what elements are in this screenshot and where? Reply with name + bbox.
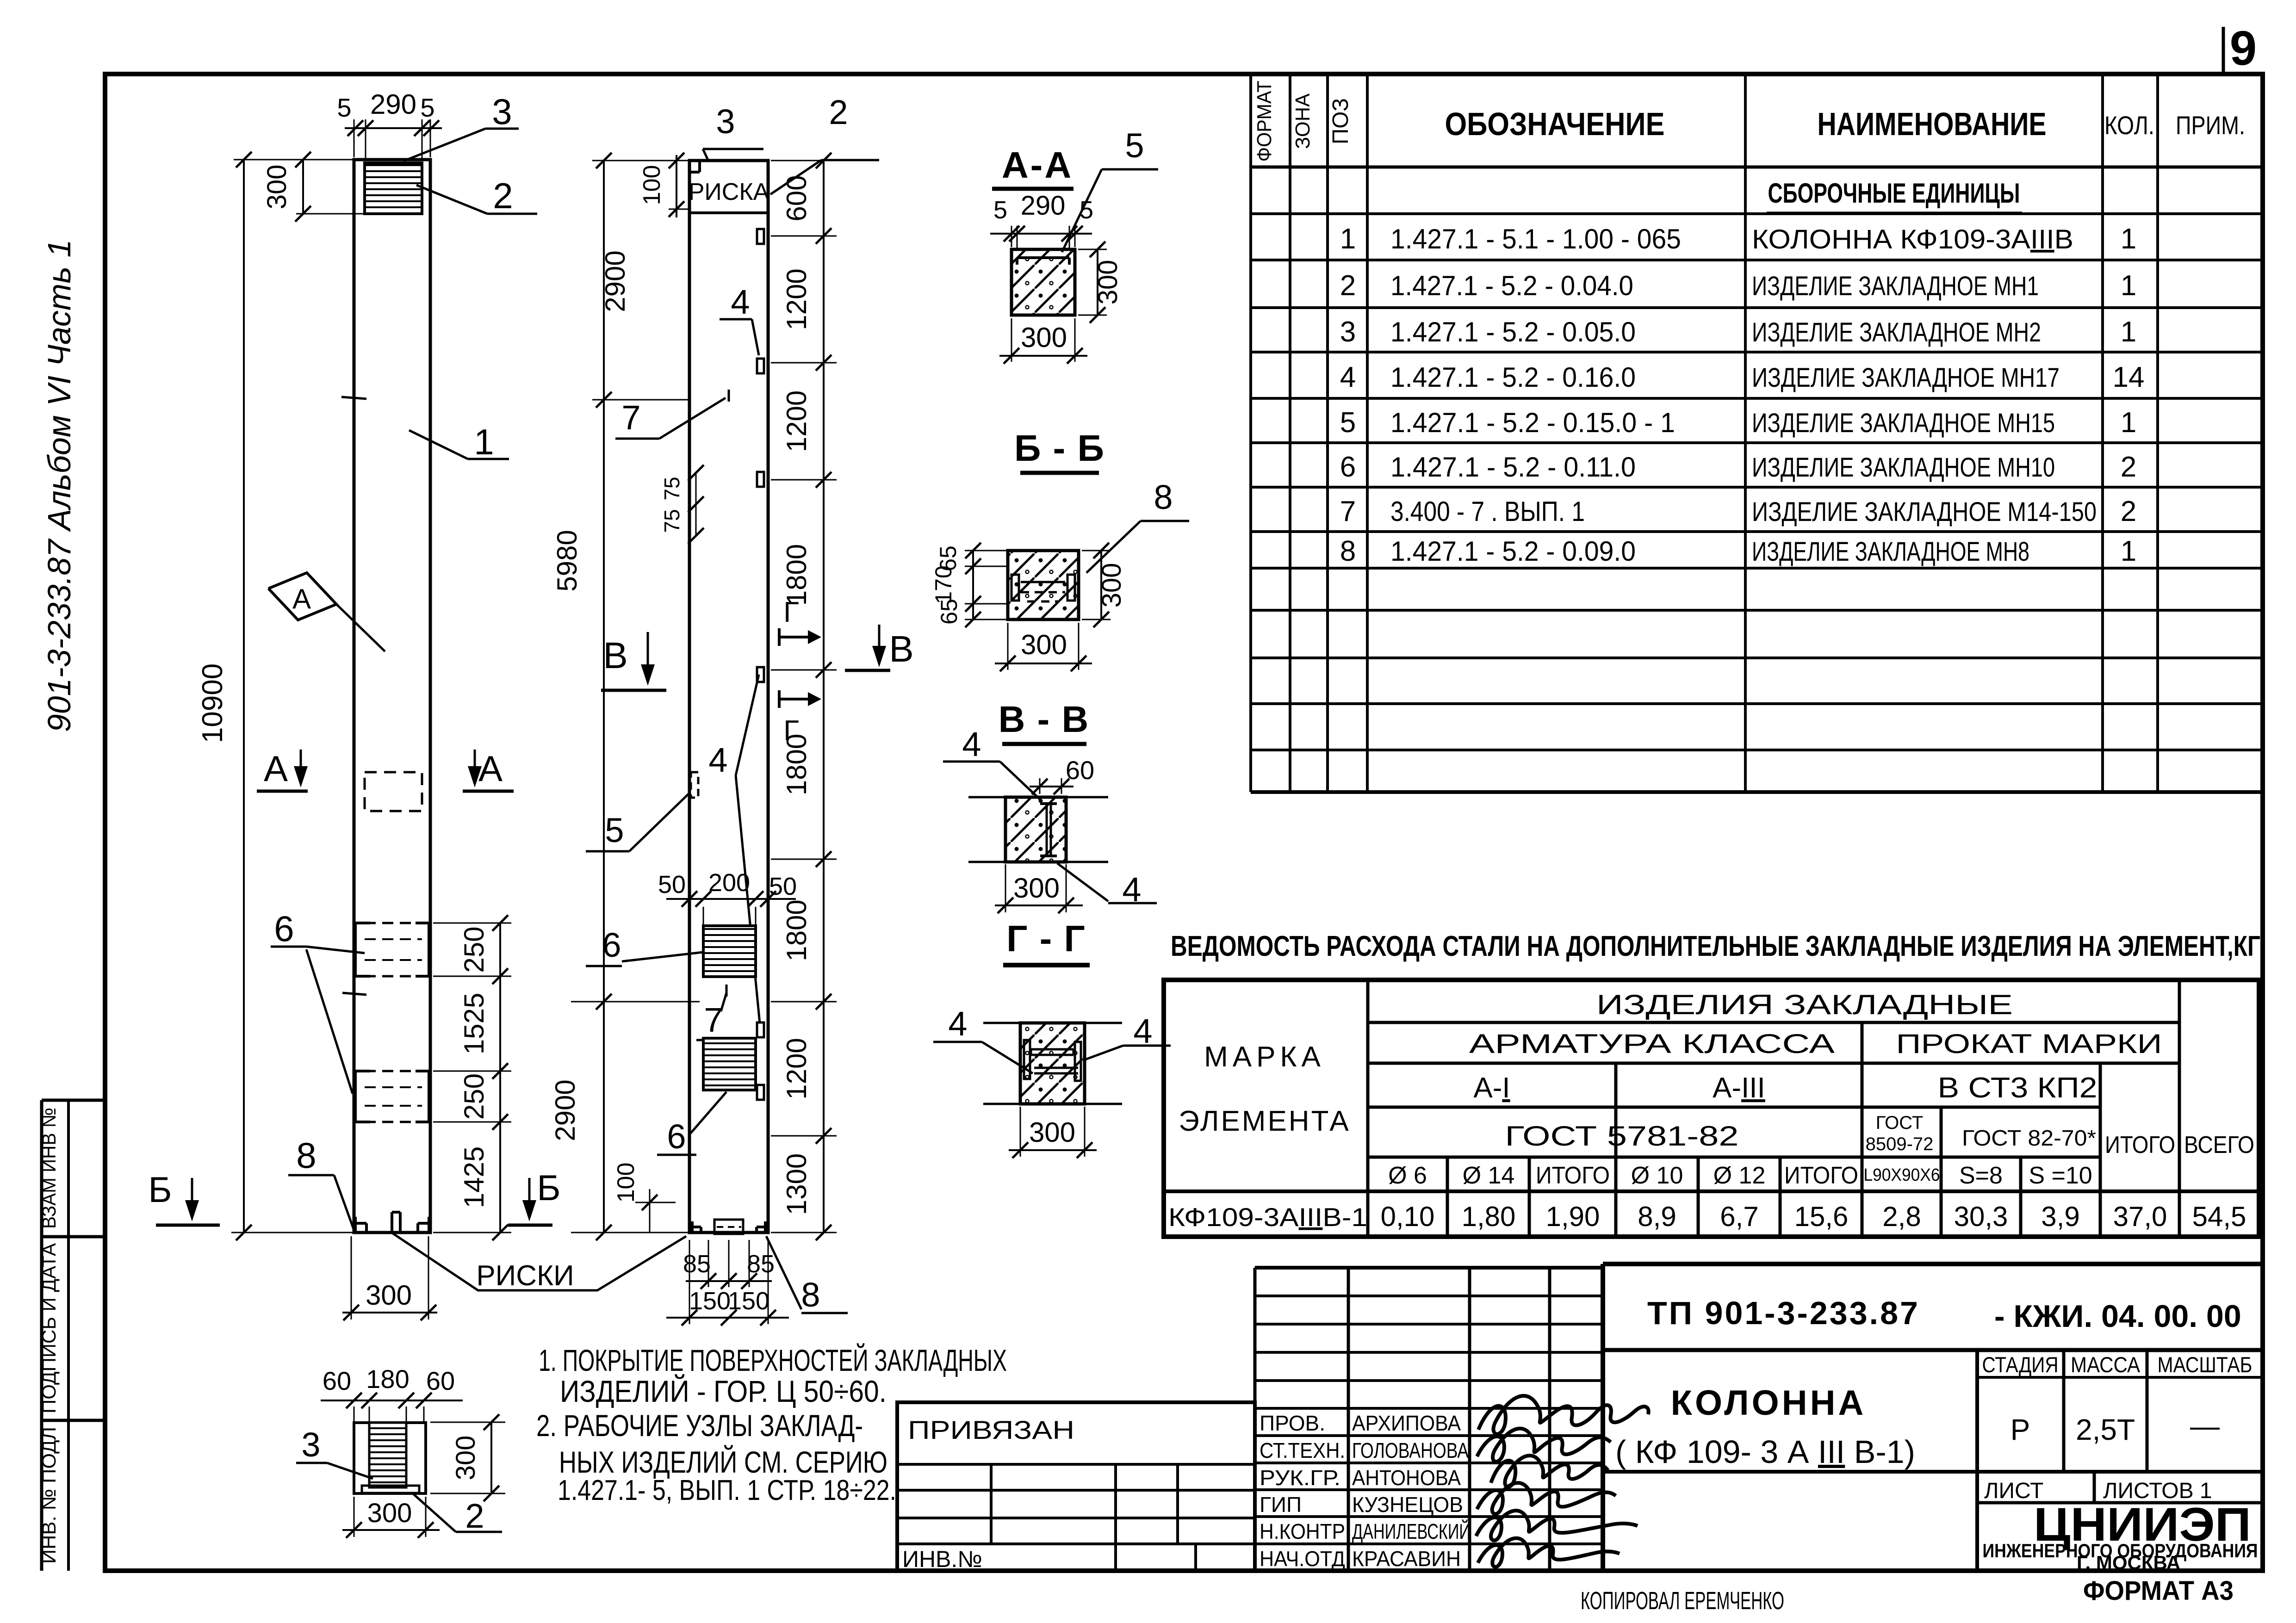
svg-text:300: 300 <box>366 1280 412 1311</box>
svg-text:В - В: В - В <box>999 699 1090 740</box>
svg-text:Изделие закладное М14-150: Изделие закладное М14-150 <box>1752 497 2097 527</box>
svg-text:В ст3 кп2: В ст3 кп2 <box>1938 1072 2097 1104</box>
svg-text:4: 4 <box>948 1004 967 1043</box>
svg-text:5: 5 <box>1340 407 1356 439</box>
svg-text:А: А <box>478 748 503 789</box>
svg-text:4: 4 <box>962 725 981 763</box>
svg-text:Красавин: Красавин <box>1352 1547 1461 1571</box>
svg-text:100: 100 <box>639 165 665 205</box>
svg-text:300: 300 <box>1097 563 1127 608</box>
svg-text:S =10: S =10 <box>2029 1162 2092 1189</box>
svg-text:1.427.1 - 5.2 - 0.11.0: 1.427.1 - 5.2 - 0.11.0 <box>1390 452 1636 483</box>
svg-text:8: 8 <box>1154 478 1173 516</box>
svg-text:Итого: Итого <box>2105 1132 2175 1158</box>
svg-text:Инв.№: Инв.№ <box>902 1546 982 1572</box>
svg-text:Г: Г <box>783 715 799 747</box>
svg-text:Нач.отд: Нач.отд <box>1260 1547 1345 1571</box>
svg-text:5: 5 <box>337 93 351 122</box>
svg-text:Изделие закладное МН2: Изделие закладное МН2 <box>1752 317 2041 347</box>
svg-text:Б - Б: Б - Б <box>1014 427 1105 469</box>
svg-text:2,8: 2,8 <box>1882 1201 1921 1232</box>
svg-text:250: 250 <box>459 926 490 973</box>
svg-text:изделий - гор. Ц 50÷60.: изделий - гор. Ц 50÷60. <box>560 1374 887 1408</box>
svg-text:200: 200 <box>708 869 750 897</box>
svg-text:10900: 10900 <box>197 663 229 743</box>
svg-text:150: 150 <box>728 1287 769 1315</box>
svg-text:КФ109-3АIIIВ-1: КФ109-3АIIIВ-1 <box>1168 1202 1367 1232</box>
svg-text:1: 1 <box>474 421 494 462</box>
svg-text:8: 8 <box>296 1135 316 1176</box>
svg-text:600: 600 <box>781 175 812 221</box>
svg-text:6: 6 <box>274 908 294 949</box>
svg-text:Арматура класса: Арматура класса <box>1469 1029 1835 1059</box>
svg-text:Итого: Итого <box>1784 1162 1858 1189</box>
svg-text:3: 3 <box>492 91 512 132</box>
svg-text:ГОСТ 82-70*: ГОСТ 82-70* <box>1962 1126 2096 1151</box>
svg-text:75: 75 <box>660 477 684 500</box>
svg-text:60: 60 <box>323 1366 351 1395</box>
svg-text:5: 5 <box>1125 126 1144 165</box>
svg-text:ø 10: ø 10 <box>1631 1162 1683 1189</box>
svg-text:Изделие закладное МН8: Изделие закладное МН8 <box>1752 537 2029 567</box>
svg-text:Масштаб: Масштаб <box>2158 1352 2253 1377</box>
svg-text:Колонна КФ109-3АIIIВ: Колонна КФ109-3АIIIВ <box>1752 224 2073 254</box>
svg-text:Колонна: Колонна <box>1671 1383 1867 1423</box>
svg-text:А: А <box>264 748 288 789</box>
svg-text:Ведомость расхода стали на доп: Ведомость расхода стали на дополнительны… <box>1171 930 2260 962</box>
svg-text:85: 85 <box>683 1250 711 1278</box>
svg-text:170: 170 <box>931 565 956 604</box>
svg-text:А-I: А-I <box>1473 1072 1510 1104</box>
svg-text:Наименование: Наименование <box>1818 106 2047 142</box>
svg-text:9: 9 <box>2230 21 2257 75</box>
svg-text:Пров.: Пров. <box>1260 1411 1325 1435</box>
svg-text:290: 290 <box>1021 191 1066 221</box>
svg-text:8,9: 8,9 <box>1638 1201 1676 1232</box>
svg-text:Изделие закладное МН17: Изделие закладное МН17 <box>1752 363 2060 393</box>
svg-text:5: 5 <box>605 811 624 849</box>
svg-text:300: 300 <box>262 165 292 210</box>
svg-text:А-III: А-III <box>1713 1072 1765 1104</box>
svg-text:Б: Б <box>148 1169 172 1210</box>
svg-text:150: 150 <box>689 1287 731 1315</box>
svg-text:2: 2 <box>465 1497 484 1535</box>
svg-text:7: 7 <box>704 1001 723 1039</box>
svg-text:8509-72: 8509-72 <box>1866 1134 1934 1154</box>
svg-text:Архипова: Архипова <box>1352 1411 1461 1435</box>
svg-text:Ст.техн.: Ст.техн. <box>1260 1438 1345 1462</box>
svg-text:290: 290 <box>370 89 416 120</box>
svg-text:1: 1 <box>2121 407 2136 439</box>
svg-text:1: 1 <box>2121 223 2136 255</box>
svg-text:Прим.: Прим. <box>2176 111 2245 140</box>
svg-text:7: 7 <box>621 398 640 437</box>
svg-text:1.427.1 - 5.2 - 0.15.0 - 1: 1.427.1 - 5.2 - 0.15.0 - 1 <box>1390 407 1675 438</box>
svg-text:14: 14 <box>2113 361 2145 393</box>
svg-text:Марка: Марка <box>1204 1041 1325 1073</box>
svg-text:300: 300 <box>1013 873 1060 904</box>
svg-text:В: В <box>603 635 627 676</box>
svg-text:Итого: Итого <box>1536 1162 1610 1189</box>
svg-text:3,9: 3,9 <box>2041 1201 2079 1232</box>
svg-text:ГИП: ГИП <box>1260 1493 1302 1517</box>
svg-text:ГОСТ 5781-82: ГОСТ 5781-82 <box>1505 1121 1739 1152</box>
svg-text:1.427.1 - 5.1 - 1.00 - 065: 1.427.1 - 5.1 - 1.00 - 065 <box>1390 223 1681 254</box>
svg-text:ГОСТ: ГОСТ <box>1876 1113 1924 1133</box>
svg-text:2: 2 <box>1340 270 1356 302</box>
svg-text:Изделия закладные: Изделия закладные <box>1596 989 2013 1020</box>
svg-text:6: 6 <box>1340 451 1356 483</box>
svg-text:2: 2 <box>829 93 848 131</box>
svg-text:3.400 - 7 . вып. 1: 3.400 - 7 . вып. 1 <box>1390 496 1585 527</box>
svg-text:Кол.: Кол. <box>2104 111 2154 140</box>
svg-text:60: 60 <box>426 1366 455 1395</box>
svg-text:8: 8 <box>1340 535 1356 567</box>
svg-text:В: В <box>889 628 913 669</box>
svg-text:г. Москва: г. Москва <box>2077 1552 2180 1573</box>
svg-text:Н.контр: Н.контр <box>1260 1519 1345 1543</box>
svg-text:1300: 1300 <box>781 1153 812 1215</box>
svg-text:S=8: S=8 <box>1959 1162 2003 1189</box>
svg-text:А: А <box>292 583 311 614</box>
svg-text:элемента: элемента <box>1179 1105 1351 1137</box>
svg-text:5980: 5980 <box>552 530 583 591</box>
svg-text:Риски: Риски <box>476 1260 574 1292</box>
svg-text:Р: Р <box>2011 1413 2030 1446</box>
svg-text:1.427.1 - 5.2 - 0.16.0: 1.427.1 - 5.2 - 0.16.0 <box>1390 362 1636 393</box>
svg-text:2. Рабочие узлы заклад-: 2. Рабочие узлы заклад- <box>536 1408 863 1443</box>
svg-text:7: 7 <box>1340 496 1356 527</box>
svg-text:4: 4 <box>708 741 727 779</box>
svg-text:50: 50 <box>769 873 797 900</box>
svg-text:6: 6 <box>602 926 621 964</box>
svg-text:Стадия: Стадия <box>1982 1352 2059 1377</box>
svg-text:1200: 1200 <box>781 1038 812 1099</box>
svg-text:Г: Г <box>783 596 799 628</box>
svg-text:4: 4 <box>731 283 750 321</box>
svg-text:2: 2 <box>493 175 513 216</box>
svg-text:Зона: Зона <box>1291 93 1314 149</box>
svg-text:Прокат марки: Прокат марки <box>1896 1029 2162 1059</box>
svg-text:3: 3 <box>301 1425 320 1464</box>
svg-text:ø 14: ø 14 <box>1463 1162 1515 1189</box>
svg-text:Формат: Формат <box>1253 81 1276 162</box>
svg-text:1800: 1800 <box>781 899 812 961</box>
svg-text:Б: Б <box>537 1167 560 1208</box>
svg-text:- кжи. 04. 00. 00: - кжи. 04. 00. 00 <box>1994 1299 2241 1334</box>
svg-text:6,7: 6,7 <box>1720 1201 1758 1232</box>
svg-text:901-3-233.87 Альбом VI Част: 901-3-233.87 Альбом VI Часть 1 <box>41 240 77 732</box>
svg-text:3: 3 <box>1340 316 1356 348</box>
svg-text:1.427.1 - 5.2 - 0.09.0: 1.427.1 - 5.2 - 0.09.0 <box>1390 536 1636 567</box>
svg-text:Копировал Еремченко: Копировал Еремченко <box>1581 1587 1784 1615</box>
svg-text:0,10: 0,10 <box>1381 1201 1435 1232</box>
svg-text:Изделие закладное МН15: Изделие закладное МН15 <box>1752 408 2055 438</box>
svg-text:Данилевский: Данилевский <box>1352 1519 1471 1543</box>
svg-text:Привязан: Привязан <box>908 1415 1074 1444</box>
svg-text:Изделие закладное МН10: Изделие закладное МН10 <box>1752 452 2055 483</box>
svg-text:2,5т: 2,5т <box>2076 1413 2135 1446</box>
svg-text:1.427.1 - 5.2 - 0.04.0: 1.427.1 - 5.2 - 0.04.0 <box>1390 270 1633 301</box>
svg-text:ø 6: ø 6 <box>1388 1162 1427 1189</box>
svg-text:1200: 1200 <box>781 390 812 452</box>
svg-text:60: 60 <box>1066 756 1094 785</box>
svg-text:100: 100 <box>613 1163 639 1203</box>
svg-text:3: 3 <box>716 102 735 141</box>
svg-text:Кузнецов: Кузнецов <box>1352 1493 1463 1517</box>
svg-text:75: 75 <box>660 509 684 533</box>
svg-text:250: 250 <box>459 1073 490 1120</box>
svg-text:1.427.1 - 5.2 - 0.05.0: 1.427.1 - 5.2 - 0.05.0 <box>1390 316 1636 347</box>
svg-text:6: 6 <box>667 1117 686 1156</box>
svg-text:50: 50 <box>658 871 686 898</box>
svg-text:8: 8 <box>801 1276 820 1314</box>
svg-text:65: 65 <box>936 599 962 625</box>
svg-text:30,3: 30,3 <box>1954 1201 2008 1232</box>
svg-text:Г - Г: Г - Г <box>1006 918 1086 959</box>
svg-text:тп 901-3-233.87: тп 901-3-233.87 <box>1647 1295 1920 1331</box>
svg-text:1: 1 <box>2121 316 2136 348</box>
svg-text:300: 300 <box>1021 322 1067 353</box>
svg-text:2900: 2900 <box>600 250 631 312</box>
svg-text:4: 4 <box>1340 361 1356 393</box>
svg-text:1. Покрытие поверхностей зак: 1. Покрытие поверхностей закладных <box>539 1343 1007 1377</box>
svg-text:54,5: 54,5 <box>2192 1201 2246 1232</box>
svg-text:Формат А3: Формат А3 <box>2083 1576 2234 1606</box>
svg-text:( Кф 109- 3 А III В-1): ( Кф 109- 3 А III В-1) <box>1615 1434 1915 1470</box>
svg-text:37,0: 37,0 <box>2113 1201 2167 1232</box>
svg-text:Изделие закладное МН1: Изделие закладное МН1 <box>1752 271 2039 301</box>
svg-text:Масса: Масса <box>2071 1352 2141 1377</box>
svg-text:Инв. № подл: Инв. № подл <box>38 1427 60 1564</box>
svg-text:1425: 1425 <box>459 1146 490 1208</box>
svg-text:ных изделий см. серию: ных изделий см. серию <box>559 1444 887 1479</box>
svg-text:2900: 2900 <box>550 1079 581 1141</box>
svg-text:ø 12: ø 12 <box>1713 1162 1766 1189</box>
svg-text:1525: 1525 <box>459 993 490 1054</box>
svg-text:Антонова: Антонова <box>1352 1466 1461 1490</box>
svg-text:Рук.гр.: Рук.гр. <box>1260 1466 1340 1490</box>
svg-text:Всего: Всего <box>2184 1132 2254 1158</box>
svg-text:85: 85 <box>747 1250 775 1278</box>
svg-text:А-А: А-А <box>1002 144 1073 186</box>
svg-text:1,80: 1,80 <box>1462 1201 1516 1232</box>
svg-text:Взам инв №: Взам инв № <box>38 1108 60 1229</box>
svg-text:2: 2 <box>2121 451 2136 483</box>
svg-text:Подпись и дата: Подпись и дата <box>38 1243 60 1413</box>
svg-text:L90x90x6: L90x90x6 <box>1864 1165 1940 1185</box>
svg-text:300: 300 <box>1029 1117 1075 1148</box>
svg-text:Поз: Поз <box>1328 98 1353 144</box>
svg-text:300: 300 <box>451 1436 481 1481</box>
svg-text:Риска: Риска <box>689 179 769 205</box>
svg-text:1,90: 1,90 <box>1546 1201 1600 1232</box>
svg-text:5: 5 <box>420 93 434 122</box>
svg-text:—: — <box>2190 1409 2220 1443</box>
svg-text:1.427.1- 5, вып. 1 стр. 18÷22: 1.427.1- 5, вып. 1 стр. 18÷22. <box>558 1474 896 1506</box>
svg-text:Голованова: Голованова <box>1352 1438 1469 1462</box>
svg-text:2: 2 <box>2121 496 2136 527</box>
svg-text:1: 1 <box>2121 270 2136 302</box>
svg-text:5: 5 <box>993 196 1007 224</box>
svg-text:180: 180 <box>366 1364 409 1394</box>
svg-text:300: 300 <box>367 1498 412 1528</box>
svg-text:300: 300 <box>1093 260 1123 305</box>
svg-text:1200: 1200 <box>781 268 812 330</box>
svg-text:300: 300 <box>1021 629 1067 660</box>
svg-text:Сборочные единицы: Сборочные единицы <box>1768 178 2020 209</box>
svg-text:1: 1 <box>2121 535 2136 567</box>
svg-text:15,6: 15,6 <box>1794 1201 1849 1232</box>
svg-text:1: 1 <box>1340 223 1356 255</box>
svg-text:Обозначение: Обозначение <box>1445 106 1665 142</box>
